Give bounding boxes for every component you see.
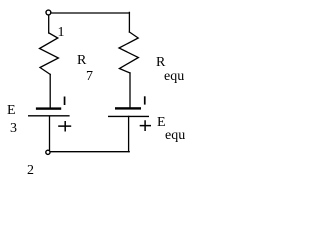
battery Eequ short thick plate [115,107,141,109]
svg-text:1: 1 [58,25,65,40]
wire right middle vertical [129,73,131,107]
wire top horizontal [51,12,129,14]
battery Eequ long plate [108,115,149,117]
wire left bottom vertical [49,116,51,150]
svg-text:R: R [156,55,166,70]
resistor R7 [40,33,59,74]
battery Eequ tick mark [144,96,146,104]
wire left top vertical [48,15,50,33]
wire left middle vertical [49,74,51,107]
svg-text:3: 3 [10,121,17,136]
resistor Requ [119,32,138,73]
svg-text:equ: equ [165,128,185,143]
battery E3 tick mark [64,97,66,106]
battery E3 plus sign [58,121,71,132]
battery E3 short thick plate [36,107,61,109]
svg-text:R: R [77,53,87,68]
wire right top vertical [128,12,130,32]
wire right bottom vertical [128,116,130,151]
node 2 terminal circle [46,150,50,154]
svg-text:equ: equ [164,69,184,84]
svg-text:2: 2 [27,163,34,178]
wire bottom horizontal [50,151,129,153]
battery Eequ plus sign [140,120,151,131]
node 1 terminal circle [46,10,51,15]
svg-text:7: 7 [86,69,93,84]
battery E3 long plate [28,115,70,117]
svg-text:E: E [7,103,16,118]
